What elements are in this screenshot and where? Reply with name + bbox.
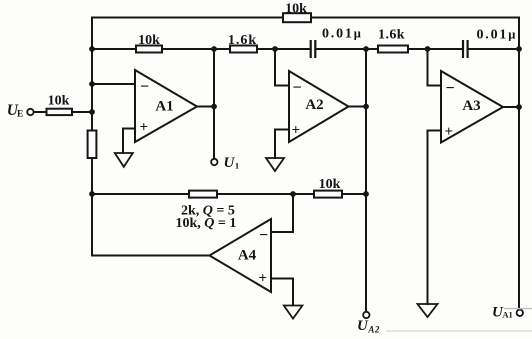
svg-text:+: + <box>445 124 454 140</box>
junction A2 output row2 <box>363 46 369 52</box>
wire row2 segment e <box>408 48 463 50</box>
op-amp A3 <box>441 71 503 143</box>
wire A2 output <box>349 106 367 108</box>
op-amp A4 <box>210 219 272 292</box>
wire row2 segment b <box>162 48 230 50</box>
wire left vertical lower <box>91 158 93 256</box>
wire input to resistor <box>34 111 47 113</box>
junction input node <box>89 109 95 115</box>
svg-text:U1: U1 <box>224 155 240 171</box>
wire A3 inverting input <box>428 49 442 86</box>
wire A1 output <box>197 106 214 108</box>
wire row2 segment d <box>316 48 379 50</box>
svg-text:10k: 10k <box>48 94 70 109</box>
wire A2 noninverting input <box>275 130 289 159</box>
svg-text:10k: 10k <box>285 2 307 17</box>
junction A4 minus bottom rail <box>290 191 296 197</box>
junction left vertical bottom rail <box>89 191 95 197</box>
junction A3 cap output <box>516 46 522 52</box>
wire bottom rail segment c <box>342 193 366 195</box>
wire top rail right segment <box>311 17 519 19</box>
wire bottom rail segment a <box>92 193 189 195</box>
capacitor 0.01u second <box>463 40 468 58</box>
terminal UA2 <box>363 312 369 318</box>
wire A3 noninverting input <box>428 131 442 305</box>
wire A2 inverting input <box>275 49 289 86</box>
wire A3 output <box>503 106 519 108</box>
terminal UA1 <box>517 310 523 316</box>
resistor 10k A1 feedback <box>136 46 162 53</box>
wire A2 output vertical <box>365 49 367 312</box>
junction A1 minus input <box>89 81 95 87</box>
svg-text:1.6k: 1.6k <box>228 33 257 48</box>
svg-text:UA2: UA2 <box>357 318 380 335</box>
terminal U1 <box>211 159 217 165</box>
svg-text:0.01μ: 0.01μ <box>477 28 518 43</box>
resistor 10k A4 input <box>314 191 342 198</box>
resistor 10k top feedback <box>283 13 311 22</box>
junction A1 output <box>211 104 217 110</box>
ground A2 <box>266 158 284 171</box>
svg-text:UA1: UA1 <box>492 305 513 321</box>
wire row2 segment f <box>468 48 519 50</box>
svg-text:+: + <box>292 123 301 139</box>
wire A1 inverting input <box>92 83 135 85</box>
op-amp A2 <box>289 71 349 142</box>
ground A3 <box>418 304 438 317</box>
resistor 1.6k first integrator <box>230 46 257 53</box>
junction A3 output <box>516 104 522 110</box>
resistor 2k/10k A4 feedback <box>189 191 217 198</box>
wire A4 inverting input <box>271 194 293 232</box>
op-amp A1 <box>135 70 197 142</box>
wire right vertical <box>518 18 520 310</box>
ground A4 <box>284 306 303 319</box>
svg-text:+: + <box>140 119 149 135</box>
svg-text:0.01μ: 0.01μ <box>322 27 363 42</box>
svg-text:A1: A1 <box>155 98 173 114</box>
wire row2 segment c <box>257 48 310 50</box>
resistor 10k input <box>47 109 73 115</box>
wire bottom rail segment b <box>217 193 314 195</box>
junction A2 output bottom rail <box>363 191 369 197</box>
junction A2 minus node <box>272 46 278 52</box>
svg-text:UE: UE <box>7 102 24 120</box>
svg-text:+: + <box>259 271 268 287</box>
wire row2 segment a <box>92 48 136 50</box>
wire left vertical upper <box>91 18 93 131</box>
svg-text:−: − <box>293 79 302 96</box>
svg-text:A3: A3 <box>462 98 480 114</box>
artifact faint scan line right of UA1 <box>504 308 532 310</box>
capacitor 0.01u first <box>311 40 316 58</box>
artifact faint scan line bottom <box>386 330 532 332</box>
svg-text:−: − <box>446 80 455 97</box>
junction A2 output <box>363 104 369 110</box>
junction node UE/A1 minus rail at row2 <box>89 46 95 52</box>
wire A1 noninverting input <box>123 129 135 154</box>
svg-text:10k: 10k <box>138 33 160 48</box>
terminal UE <box>27 109 33 115</box>
resistor Q-setting vertical <box>88 131 97 159</box>
svg-text:−: − <box>140 78 149 95</box>
svg-text:A2: A2 <box>305 97 323 113</box>
svg-text:10k, Q = 1: 10k, Q = 1 <box>176 216 237 231</box>
svg-text:A4: A4 <box>238 247 257 263</box>
svg-text:−: − <box>259 227 268 244</box>
wire A1 output vertical <box>213 49 215 159</box>
junction A1 output row2 <box>211 46 217 52</box>
svg-text:1.6k: 1.6k <box>378 28 405 43</box>
resistor 1.6k second integrator <box>378 46 408 53</box>
wire A4 output <box>92 255 210 257</box>
wire input resistor to node <box>72 111 92 113</box>
svg-text:10k: 10k <box>319 177 341 192</box>
ground A1 <box>115 153 133 167</box>
wire top rail left segment <box>92 17 283 19</box>
wire A4 noninverting input <box>271 279 293 306</box>
junction A3 minus node <box>425 46 431 52</box>
